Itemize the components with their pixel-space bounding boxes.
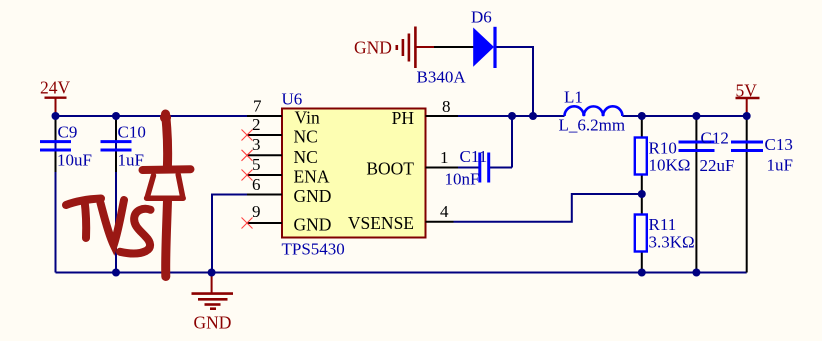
svg-text:6: 6 <box>252 175 261 194</box>
pin 8 PH <box>426 115 459 117</box>
wire: top-left rail 24V <box>56 115 248 117</box>
pin 7 Vin <box>247 115 282 117</box>
hand-drawn TVS diode stroke <box>143 112 191 277</box>
svg-text:10KΩ: 10KΩ <box>649 156 691 175</box>
diode D6 B340A <box>417 8 496 87</box>
svg-text:C13: C13 <box>765 135 793 154</box>
no-connect X pin 3 <box>242 150 253 161</box>
svg-text:7: 7 <box>253 97 262 116</box>
no-connect X pin 9 <box>242 218 253 229</box>
junction 24V rail at C10 <box>112 112 120 120</box>
svg-text:1uF: 1uF <box>767 156 793 175</box>
pin 6 GND <box>247 194 282 196</box>
svg-text:4: 4 <box>440 202 449 221</box>
svg-text:GND: GND <box>294 186 332 206</box>
capacitor C9 <box>40 118 92 172</box>
ground symbol bottom <box>192 273 234 309</box>
svg-text:1uF: 1uF <box>118 151 144 170</box>
pin 5 ENA <box>247 174 282 176</box>
capacitor C11 <box>445 147 489 189</box>
junction ground rail at C10 <box>112 269 120 277</box>
capacitor C10 <box>101 118 146 172</box>
wire: VSENSE feedback <box>454 194 642 222</box>
wire: BOOT to C11 <box>458 167 479 169</box>
junction PH net at D6 drop <box>529 112 537 120</box>
svg-text:8: 8 <box>442 97 451 116</box>
ground symbol top (for D6 anode) <box>397 27 434 69</box>
power symbol 5V <box>736 81 760 115</box>
no-connect X pin 2 <box>242 130 253 141</box>
wire: BOOT C11 riser <box>511 116 513 168</box>
wire: C12 branch <box>695 116 697 273</box>
power symbol 24V <box>40 78 71 114</box>
svg-text:GND: GND <box>294 215 332 235</box>
svg-text:3: 3 <box>252 135 261 154</box>
svg-text:NC: NC <box>294 147 318 167</box>
wire: R10 R11 column <box>641 116 643 273</box>
svg-text:TPS5430: TPS5430 <box>282 240 345 259</box>
svg-text:Vin: Vin <box>295 108 320 128</box>
wire: C13 branch <box>746 116 748 273</box>
IC U6 TPS5430 body <box>282 109 426 238</box>
svg-text:PH: PH <box>392 108 415 128</box>
svg-text:3.3KΩ: 3.3KΩ <box>649 233 695 252</box>
svg-text:1: 1 <box>440 148 449 167</box>
pin 4 VSENSE <box>426 221 454 223</box>
junction ground rail at R11 <box>638 269 646 277</box>
svg-text:B340A: B340A <box>417 68 467 87</box>
svg-text:VSENSE: VSENSE <box>348 213 414 233</box>
svg-text:24V: 24V <box>40 78 71 98</box>
wire: pin6 GND loop <box>212 195 247 273</box>
junction 5V net at R10 <box>638 112 646 120</box>
pin 1 BOOT <box>426 167 459 169</box>
hand-drawn TVS text <box>66 199 151 254</box>
svg-text:10nF: 10nF <box>445 170 480 189</box>
no-connect X pin 5 <box>242 170 253 181</box>
svg-text:BOOT: BOOT <box>366 159 414 179</box>
capacitor C13 <box>731 135 793 175</box>
capacitor C12 <box>679 129 735 176</box>
junction 5V net at C13 and 5V symbol <box>743 112 751 120</box>
svg-text:2: 2 <box>252 115 261 134</box>
wire: D6 cathode drop <box>497 47 534 116</box>
resistor R10 <box>635 138 691 175</box>
inductor L1 <box>559 88 626 135</box>
junction 5V net at C12 <box>692 112 700 120</box>
svg-text:C9: C9 <box>58 123 78 142</box>
wire: PH output to L1 and 5V rail <box>458 115 565 117</box>
pin 3 NC <box>247 154 282 156</box>
wire: bottom ground rail <box>56 272 747 274</box>
junction 24V rail at C9 <box>52 112 60 120</box>
svg-text:C12: C12 <box>701 129 729 148</box>
svg-text:NC: NC <box>294 127 318 147</box>
svg-text:9: 9 <box>252 202 261 221</box>
svg-text:10uF: 10uF <box>57 151 92 170</box>
wire: C10 vertical branch <box>115 116 117 273</box>
svg-text:GND: GND <box>354 38 392 58</box>
svg-text:R11: R11 <box>649 215 677 234</box>
svg-text:L_6.2mm: L_6.2mm <box>559 116 626 135</box>
svg-text:C11: C11 <box>460 147 488 166</box>
pin 9 GND <box>247 222 282 224</box>
svg-text:C10: C10 <box>118 123 146 142</box>
junction feedback node R10-R11 <box>638 190 646 198</box>
junction PH net at C11 riser <box>508 112 516 120</box>
svg-text:U6: U6 <box>282 90 303 109</box>
resistor R11 <box>635 215 695 252</box>
pin 2 NC <box>247 134 282 136</box>
junction ground rail at C12 <box>692 269 700 277</box>
svg-text:22uF: 22uF <box>700 156 735 175</box>
svg-text:5: 5 <box>252 155 261 174</box>
svg-text:5V: 5V <box>736 81 758 101</box>
svg-text:L1: L1 <box>564 88 583 107</box>
junction ground rail at GND symbol <box>208 269 216 277</box>
svg-text:GND: GND <box>194 313 232 333</box>
svg-text:ENA: ENA <box>294 167 330 187</box>
svg-text:D6: D6 <box>471 8 492 27</box>
wire: C9 left vertical branch <box>55 116 57 273</box>
